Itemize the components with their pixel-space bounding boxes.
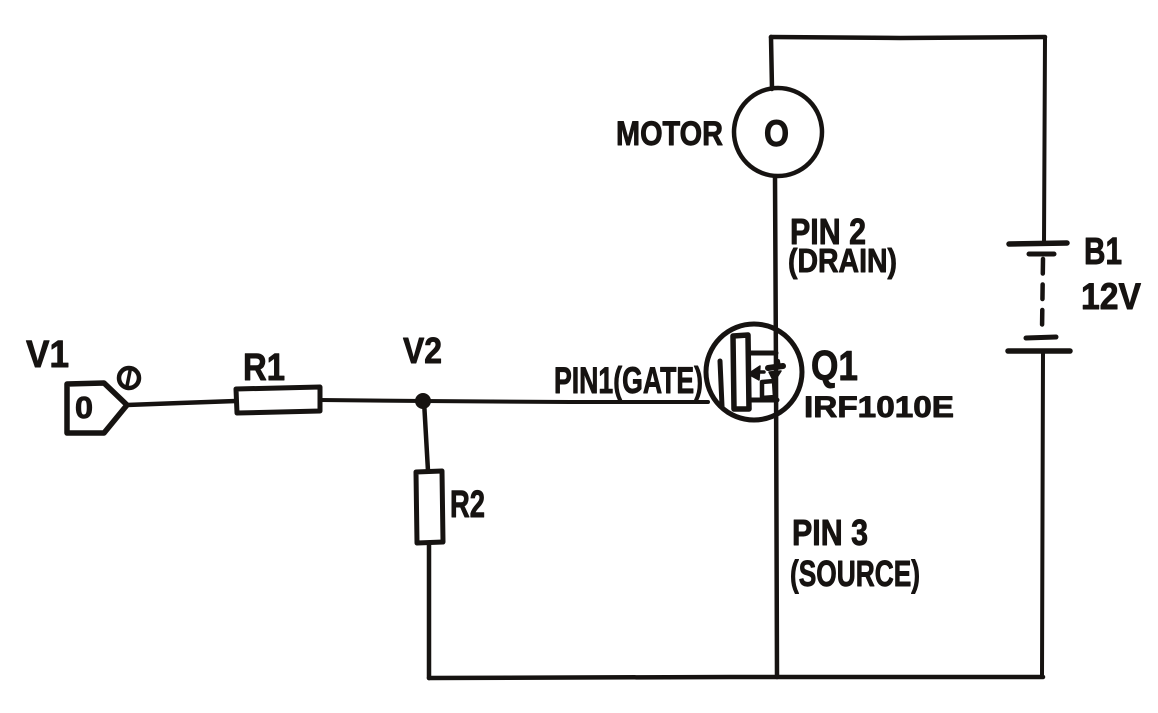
wire battery to bottom rail xyxy=(1042,352,1043,677)
voltage source V1 xyxy=(67,383,127,433)
node V2 junction dot xyxy=(415,393,431,409)
resistor R2 xyxy=(416,471,443,543)
wire source Q1 to bottom rail xyxy=(776,372,777,677)
svg-text:V1: V1 xyxy=(26,334,69,376)
Q1 body-source link loop xyxy=(762,381,775,398)
wire R2 down to bottom rail xyxy=(427,543,432,678)
svg-text:V2: V2 xyxy=(403,330,442,371)
wire top rail to battery xyxy=(1044,37,1045,243)
svg-text:B1: B1 xyxy=(1084,231,1122,273)
top rail wire xyxy=(771,37,1045,38)
Q1 body arrow xyxy=(748,361,783,382)
svg-text:12V: 12V xyxy=(1081,276,1141,317)
svg-text:(SOURCE): (SOURCE) xyxy=(790,553,920,594)
Q1 source stub pin xyxy=(749,398,777,403)
Q1 gate lead bar xyxy=(720,361,722,406)
wire motor to top rail xyxy=(771,37,772,89)
svg-text:PIN 3: PIN 3 xyxy=(792,512,868,553)
battery B1 xyxy=(1008,243,1070,351)
resistor R1 xyxy=(236,387,320,413)
svg-text:IRF1010E: IRF1010E xyxy=(804,391,954,424)
Q1 drain stub pin xyxy=(749,351,776,356)
V1 output terminal marker xyxy=(119,368,139,388)
svg-text:R1: R1 xyxy=(243,347,285,389)
wire V1 to R1 xyxy=(127,401,236,405)
svg-text:PIN1(GATE): PIN1(GATE) xyxy=(554,360,703,401)
wire drain Q1 to motor xyxy=(775,177,776,372)
wire V2 down to R2 xyxy=(424,401,428,471)
transistor Q1 body circle xyxy=(706,324,802,420)
svg-text:R2: R2 xyxy=(450,484,485,526)
svg-text:0: 0 xyxy=(75,390,93,425)
bottom rail wire xyxy=(429,677,1043,678)
svg-text:MOTOR: MOTOR xyxy=(616,115,723,153)
svg-text:O: O xyxy=(764,113,789,154)
wire R1 to node V2 xyxy=(320,400,424,401)
svg-text:(DRAIN): (DRAIN) xyxy=(788,242,897,279)
svg-text:Q1: Q1 xyxy=(811,342,858,389)
motor M circle xyxy=(734,88,822,176)
Q1 gate electrode rectangle xyxy=(733,335,749,409)
wire V2 to Q1 gate xyxy=(423,401,708,402)
